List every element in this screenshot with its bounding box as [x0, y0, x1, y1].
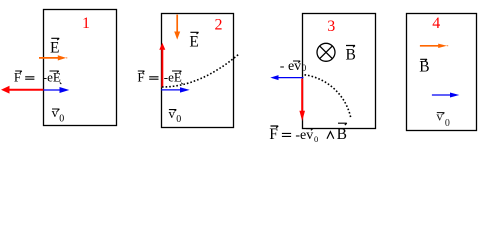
arrow E1 orange: [39, 57, 58, 59]
svg-text:B: B: [337, 126, 347, 143]
vector bar F2-E: [172, 71, 181, 73]
arrow F2 red up: [161, 49, 163, 88]
svg-text:2: 2: [215, 17, 223, 34]
arrow B4 orange right: [420, 45, 439, 47]
vector bar B3: [346, 46, 355, 48]
svg-text:3: 3: [327, 18, 335, 35]
vector bar v3: [293, 61, 300, 63]
vector bar v1: [52, 109, 59, 111]
vector bar v2: [169, 110, 176, 112]
arrow -ev0 blue left: [278, 77, 303, 79]
svg-text:v: v: [436, 109, 443, 124]
vector bar F2-F: [138, 71, 145, 73]
svg-text:B: B: [419, 58, 429, 75]
svg-text:0: 0: [302, 63, 307, 73]
svg-text:v: v: [52, 105, 59, 120]
svg-text:0: 0: [176, 114, 181, 125]
box panel 4: [407, 14, 477, 131]
svg-text:B: B: [346, 47, 356, 64]
trajectory arc dotted: [305, 75, 352, 119]
trajectory parabola dotted: [162, 54, 239, 87]
svg-text:-ev: -ev: [295, 128, 313, 143]
vector bar E1: [51, 38, 59, 40]
box panel 3: [303, 14, 376, 129]
svg-text:F: F: [269, 126, 278, 143]
svg-text:v: v: [169, 106, 176, 121]
arrow E2 orange down: [176, 15, 178, 32]
vector bar F1-E: [50, 71, 59, 73]
svg-text:0: 0: [314, 134, 318, 144]
arrow F3 red down: [301, 79, 303, 112]
svg-text:1: 1: [82, 15, 90, 32]
vector bar F1-F: [15, 71, 22, 73]
B3 circle cross symbol: [317, 43, 335, 61]
vector bar F3-v: [306, 129, 313, 131]
arrow F1 red left: [9, 89, 43, 91]
vector bar F3-F: [271, 126, 279, 128]
vector bar v4: [437, 113, 445, 115]
arrow v2 blue right: [161, 89, 180, 91]
box panel 2: [162, 14, 234, 128]
box panel 1: [44, 10, 117, 126]
vector bar E2: [190, 32, 198, 34]
vector bar B4: [420, 59, 427, 61]
arrow v1 blue right: [43, 89, 60, 91]
svg-text:0: 0: [59, 114, 64, 125]
arrow v4 blue right: [432, 94, 451, 96]
svg-text:4: 4: [432, 15, 440, 32]
svg-text:0: 0: [445, 118, 450, 129]
vector bar F3-B: [338, 123, 347, 125]
svg-text:E: E: [189, 34, 198, 51]
svg-text:E: E: [50, 40, 59, 57]
svg-text:-eE: -eE: [164, 70, 182, 85]
